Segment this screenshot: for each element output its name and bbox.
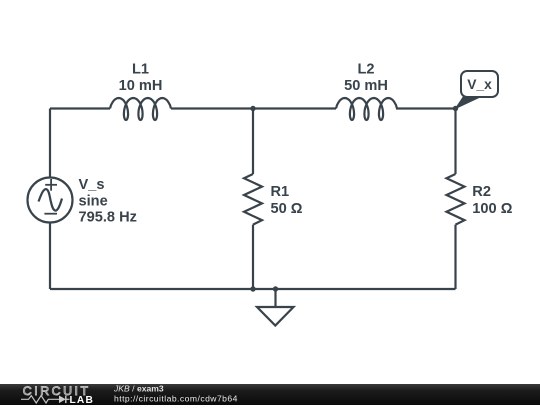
wire R1 top lead bbox=[252, 109, 254, 175]
svg-text:http://circuitlab.com/cdw7b64: http://circuitlab.com/cdw7b64 bbox=[114, 393, 238, 403]
svg-text:V_x: V_x bbox=[467, 77, 492, 92]
resistor R1 bbox=[244, 174, 262, 225]
svg-text:R1: R1 bbox=[271, 184, 290, 200]
svg-text:V_s: V_s bbox=[79, 177, 105, 193]
svg-text:795.8 Hz: 795.8 Hz bbox=[79, 210, 137, 226]
wire left vertical source top bbox=[49, 109, 51, 178]
svg-text:50 mH: 50 mH bbox=[344, 78, 388, 94]
V_s minus sign bbox=[44, 213, 57, 215]
svg-text:L2: L2 bbox=[357, 61, 374, 77]
svg-text:50 Ω: 50 Ω bbox=[271, 201, 303, 217]
logo diode symbol bbox=[59, 396, 66, 404]
ground triangle bbox=[257, 307, 294, 326]
svg-text:R2: R2 bbox=[472, 184, 491, 200]
resistor R2 bbox=[447, 174, 465, 225]
wire R2 bottom lead bbox=[454, 225, 456, 289]
wire L2 to node V_x bbox=[396, 107, 456, 109]
inductor L2 bbox=[336, 98, 397, 120]
svg-text:L1: L1 bbox=[132, 61, 149, 77]
svg-text:JKB / exam3: JKB / exam3 bbox=[113, 384, 164, 394]
logo resistor squiggle bbox=[21, 396, 70, 403]
wire bottom horizontal bbox=[50, 288, 456, 290]
inductor L1 bbox=[110, 98, 171, 120]
V_s sine wave bbox=[39, 189, 63, 210]
svg-text:sine: sine bbox=[79, 193, 108, 209]
wire source bottom vertical bbox=[49, 223, 51, 290]
node junction dot V_x bbox=[453, 106, 458, 111]
voltage source V_s circle bbox=[28, 178, 73, 223]
node junction dot ground bbox=[273, 286, 278, 291]
svg-text:10 mH: 10 mH bbox=[119, 78, 163, 94]
node junction dot R1 bottom bbox=[250, 286, 255, 291]
wire L1 to node A bbox=[171, 107, 336, 109]
node junction dot A top bbox=[250, 106, 255, 111]
V_s plus sign bbox=[45, 179, 57, 191]
wire R1 bottom lead bbox=[252, 225, 254, 289]
wire top-left horizontal lead to L1 bbox=[50, 107, 110, 109]
wire R2 top lead bbox=[454, 109, 456, 175]
svg-text:LAB: LAB bbox=[70, 395, 95, 405]
node label V_x flag pointer bbox=[456, 97, 482, 109]
svg-text:100 Ω: 100 Ω bbox=[472, 201, 512, 217]
ground stub wire bbox=[274, 289, 276, 307]
node label V_x box bbox=[461, 71, 498, 97]
